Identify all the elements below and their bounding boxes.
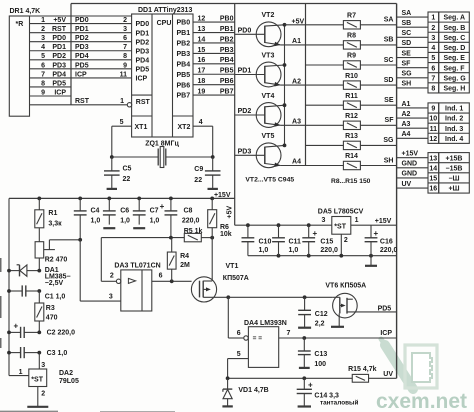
label DR1 4,7K [10, 8, 41, 15]
pin 16 number [429, 186, 437, 193]
net label SC [384, 57, 394, 64]
pin 5 number [431, 55, 435, 62]
svg-text:11: 11 [120, 71, 128, 78]
svg-text:R15 4,7k: R15 4,7k [348, 366, 377, 373]
svg-text:ICP: ICP [380, 330, 392, 337]
svg-text:18: 18 [198, 78, 206, 85]
svg-text:PB3: PB3 [177, 51, 191, 58]
net label +5V vertical [227, 206, 234, 219]
svg-text:16: 16 [429, 186, 437, 193]
mosfet VT6 KP505A [333, 293, 397, 326]
svg-text:Seg. A: Seg. A [444, 15, 466, 22]
wire row R11 left [306, 104, 344, 106]
svg-text:SB: SB [402, 20, 412, 27]
svg-text:Ind. 3: Ind. 3 [445, 126, 463, 133]
resistor R11 [343, 101, 396, 109]
wire VT1 source to DA4 pin6 [228, 297, 244, 338]
pin 12 number [429, 136, 437, 143]
net label SA [384, 17, 394, 24]
svg-text:PB3: PB3 [220, 47, 234, 54]
svg-text:3: 3 [321, 217, 325, 224]
svg-text:C6: C6 [120, 207, 129, 214]
svg-text:14: 14 [198, 36, 206, 43]
polarity + C8 [160, 202, 165, 211]
DD1 port label ICP [136, 76, 148, 83]
svg-text:12: 12 [429, 136, 437, 143]
svg-text:1,0: 1,0 [150, 217, 160, 224]
pin 7 DA4 [287, 330, 291, 337]
polarity + C14 [308, 381, 313, 390]
ground VD1 [222, 405, 232, 407]
svg-text:3,3к: 3,3к [48, 220, 62, 227]
node DA1 right [37, 269, 41, 273]
svg-text:*ST: *ST [334, 224, 346, 231]
DD1 port label PD3 [136, 48, 150, 55]
wire UV line [228, 377, 353, 379]
capacitor C7 [133, 198, 146, 224]
svg-text:C16: C16 [380, 238, 393, 245]
polarity + C16 [374, 229, 379, 238]
svg-text:11: 11 [430, 126, 438, 133]
pin 3 number [431, 35, 435, 42]
pin 8 label Seg. H [444, 86, 466, 93]
regulator DA2 79L05 [9, 353, 47, 407]
sheet top border [71, 3, 397, 5]
pin number 4 [41, 44, 45, 51]
svg-text:R3: R3 [46, 305, 55, 312]
wire row R9 left [306, 64, 344, 66]
node C15 top [307, 223, 311, 227]
svg-text:4: 4 [431, 45, 435, 52]
polarity + C15 [313, 229, 318, 238]
node rail C7 [137, 197, 141, 201]
node DA1 left [7, 269, 11, 273]
svg-text:R2 470: R2 470 [45, 257, 68, 264]
svg-text:DA5 L7805CV: DA5 L7805CV [318, 208, 364, 215]
svg-text:SF: SF [402, 60, 412, 67]
svg-text:R10: R10 [345, 73, 358, 80]
svg-text:PD5: PD5 [75, 62, 89, 69]
node collector VT2 [283, 23, 287, 27]
DD1 pin number 6 [123, 35, 127, 42]
net label PB6 [220, 78, 234, 85]
node gnd DA5 [339, 254, 343, 258]
resistor network DR1 [9, 16, 29, 116]
label DD1 ATTiny2313 [138, 7, 192, 14]
wire UV to pin 16 [397, 187, 428, 189]
svg-text:Ind. 4: Ind. 4 [445, 136, 463, 143]
pin 15 label &#8722;Ш [448, 176, 459, 183]
svg-text:PD2: PD2 [52, 53, 66, 60]
DD1 pin label PD4 [75, 53, 89, 60]
svg-text:7: 7 [41, 71, 45, 78]
wire DA5 pin1 +15V [351, 224, 397, 226]
pin 8 number [431, 86, 435, 93]
wire DR1 pin 5 (PD2) [30, 59, 132, 61]
resistor R7 [343, 21, 396, 29]
svg-text:5: 5 [431, 55, 435, 62]
connector XP1 pins 9-12 (indicators) [428, 103, 469, 143]
svg-text:VT4: VT4 [262, 93, 275, 100]
label C12 2,2 [315, 311, 328, 327]
svg-text:14: 14 [429, 165, 437, 172]
pin 4 label Seg. D [444, 45, 466, 52]
svg-text:SC: SC [402, 30, 412, 37]
svg-text:10k: 10k [220, 231, 232, 238]
label C3 1,0 [47, 350, 68, 357]
node VD1 [226, 376, 230, 380]
svg-text:A2: A2 [402, 111, 411, 118]
svg-text:1: 1 [355, 217, 359, 224]
node C13 [302, 336, 306, 340]
svg-text:SD: SD [384, 77, 394, 84]
resistor R12 [343, 121, 396, 129]
net label +15V [402, 150, 419, 157]
svg-text:−Ш: −Ш [448, 176, 459, 183]
svg-text:A4: A4 [402, 131, 411, 138]
net label SF [385, 117, 395, 124]
pin 2 DA5 [344, 237, 348, 244]
net label A4 [402, 131, 411, 138]
svg-text:+: + [313, 229, 318, 238]
net label SF [402, 60, 412, 67]
ground VT6 [331, 326, 344, 328]
label C1 1,0 [45, 293, 66, 300]
capacitor C13 [298, 338, 311, 367]
wire DR1 pin 3 (PD0) [30, 41, 132, 43]
pin 15 number [429, 176, 437, 183]
ground symbol C16 [365, 256, 377, 266]
svg-text:15: 15 [429, 176, 437, 183]
node B R4/C8 [169, 236, 173, 240]
pin 1 DA2 [19, 369, 23, 376]
label C6 1,0 [120, 207, 130, 224]
capacitor C6 [103, 198, 116, 224]
net label A1 [292, 38, 301, 45]
label R11 [345, 93, 358, 100]
svg-text:SG: SG [383, 137, 394, 144]
wire pin2 branch [101, 238, 116, 282]
net label GND [402, 171, 418, 178]
pin number 17 [198, 68, 206, 75]
net label PD5 [378, 305, 392, 312]
svg-text:A1: A1 [402, 101, 411, 108]
svg-text:R4: R4 [180, 253, 189, 260]
capacitor C4 [74, 198, 87, 239]
label DA3 TL071CN [114, 263, 160, 270]
ground C7 [133, 227, 145, 229]
label R8...R15 150 [331, 178, 371, 185]
node XT2-C9 [211, 155, 215, 159]
svg-text:PB5: PB5 [177, 72, 191, 79]
svg-text:R8: R8 [347, 33, 356, 40]
DD1 pin label PD2 [75, 35, 89, 42]
node collector VT3 [283, 63, 287, 67]
svg-text:1: 1 [431, 15, 435, 22]
pin 1 number [431, 15, 435, 22]
scan edge artifacts [0, 258, 175, 412]
wire row R13 left [306, 144, 344, 146]
pin 14 label &#8722;15B [446, 165, 463, 172]
label DA2 79L05 [59, 370, 79, 385]
svg-text:R7: R7 [347, 13, 356, 20]
wire seg SB to pin 2 [397, 26, 428, 28]
svg-text:SE: SE [402, 50, 412, 57]
wire row R12 left [306, 124, 344, 126]
DD1 port label XT1 [135, 124, 148, 131]
capacitor C5 [104, 157, 120, 188]
svg-text:Seg. H: Seg. H [444, 86, 466, 93]
ground C6 [103, 227, 115, 229]
net label A1 [402, 101, 411, 108]
svg-text:17: 17 [198, 68, 206, 75]
svg-text:ZQ1 8МГц: ZQ1 8МГц [145, 141, 179, 148]
svg-text:SG: SG [402, 71, 413, 78]
svg-text:1: 1 [19, 369, 23, 376]
svg-text:PB6: PB6 [220, 78, 234, 85]
sheet left border [70, 4, 72, 105]
label DA5 L7805CV [318, 208, 364, 215]
wire A2 to pin 10 [397, 117, 428, 119]
svg-text:VD1 4,7В: VD1 4,7В [238, 387, 268, 394]
svg-text:VT2: VT2 [262, 12, 275, 19]
net label PD4 [52, 71, 66, 78]
capacitor C8 [165, 198, 178, 237]
svg-text:Ind. 2: Ind. 2 [445, 116, 463, 123]
wire DR1 pin 4 (PD1) [30, 50, 132, 52]
pin number 15 [198, 47, 206, 54]
watermark cxem.net logo [376, 339, 467, 412]
net label +15V [214, 192, 231, 199]
svg-text:PB4: PB4 [177, 61, 191, 68]
net label +15V [375, 218, 392, 225]
svg-text:PD1: PD1 [52, 44, 66, 51]
net label UV [402, 181, 412, 188]
svg-text:A1: A1 [292, 38, 301, 45]
net label PB2 [220, 36, 234, 43]
svg-text:1,0: 1,0 [120, 217, 130, 224]
DD1 pin number 8 [123, 53, 127, 60]
net label SD [384, 77, 394, 84]
node rail R6 [210, 197, 214, 201]
svg-text:1,0: 1,0 [91, 217, 101, 224]
svg-text:R5 1k: R5 1k [184, 228, 203, 235]
wire R15 to cable [369, 377, 397, 379]
svg-text:PD3: PD3 [238, 149, 252, 156]
node rail C8 [169, 197, 173, 201]
svg-text:A4: A4 [292, 159, 301, 166]
capacitor C1 [9, 285, 39, 296]
node C14 [302, 376, 306, 380]
node C3 left [7, 351, 11, 355]
node gnd C16 [369, 254, 373, 258]
net label SE [402, 50, 412, 57]
node C12 [303, 295, 307, 299]
net label PD2 [52, 53, 66, 60]
svg-text:DA3 TL071CN: DA3 TL071CN [114, 263, 160, 270]
node XT1-C5 [110, 155, 114, 159]
svg-text:PD1: PD1 [136, 30, 150, 37]
label R9 [347, 53, 356, 60]
pin number 8 [41, 80, 45, 87]
svg-text:PD3: PD3 [75, 44, 89, 51]
net label PB7 [220, 89, 234, 96]
label C8 220,0 [182, 207, 200, 224]
wire RST to DD1 pin 1 [30, 104, 128, 106]
svg-text:2: 2 [41, 391, 45, 398]
svg-text:PD0: PD0 [238, 28, 252, 35]
resistor R9 [343, 61, 396, 69]
pin 9 number [431, 106, 435, 113]
svg-text:C2 220,0: C2 220,0 [47, 330, 76, 337]
pin number 2 [41, 26, 45, 33]
net label +5V [292, 19, 305, 26]
wire DR1 pin 8 (PD5) [30, 86, 72, 88]
svg-text:PD0: PD0 [52, 35, 66, 42]
label C10 1,0 [259, 238, 272, 253]
wire node B [101, 237, 184, 239]
label R5 1k [184, 228, 203, 235]
DD1 port label PB3 [177, 51, 191, 58]
svg-text:+: + [374, 229, 379, 238]
wire DR1 pin 6 (PD3) [30, 68, 132, 70]
label R3 470 [46, 305, 58, 322]
net label ICP [380, 330, 392, 337]
DD1 pin label RST [75, 98, 90, 105]
node rail C4 [78, 197, 82, 201]
svg-text:A3: A3 [292, 119, 301, 126]
pin 3 DA2 [41, 362, 45, 369]
capacitor C11 [272, 225, 285, 256]
left supply branch [8, 198, 10, 375]
svg-text:+5V: +5V [292, 19, 305, 26]
node C3 right [37, 351, 41, 355]
svg-text:PD2: PD2 [136, 39, 150, 46]
label C2 220,0 [47, 330, 76, 337]
svg-text:PB2: PB2 [220, 36, 234, 43]
mosfet VT1 KP507A [191, 238, 228, 302]
svg-text:9: 9 [41, 89, 45, 96]
node gnd C11 [277, 254, 281, 258]
pin 11 label Ind. 3 [445, 126, 463, 133]
node C1 right [37, 289, 41, 293]
svg-text:2: 2 [431, 25, 435, 32]
net label PB5 [220, 68, 234, 75]
label VT5 [262, 133, 275, 140]
svg-text:ICP: ICP [136, 76, 148, 83]
DD1 port label PB1 [177, 30, 191, 37]
svg-text:2: 2 [123, 17, 127, 24]
svg-text:R12: R12 [345, 113, 358, 120]
svg-text:XT2: XT2 [178, 124, 191, 131]
label VT6 KP505A [325, 283, 366, 290]
svg-text:Seg. C: Seg. C [444, 35, 466, 42]
svg-text:16: 16 [198, 57, 206, 64]
label C14 3,3 tantalum [314, 392, 358, 406]
svg-text:SA: SA [402, 10, 412, 17]
label DA4 LM393N [244, 320, 287, 327]
comparator DA4 LM393N [244, 327, 279, 368]
pin 2 DA3 [110, 273, 114, 280]
svg-text:+: + [308, 381, 313, 390]
pin number 13 [198, 26, 206, 33]
net label SE [384, 97, 394, 104]
svg-text:8: 8 [41, 80, 45, 87]
svg-text:PD2: PD2 [238, 108, 252, 115]
svg-text:C4: C4 [91, 207, 100, 214]
svg-text:PB4: PB4 [220, 57, 234, 64]
net label PD1 [52, 44, 66, 51]
svg-text:= =: = = [253, 335, 263, 342]
wire DD1 pin 17 (PB5) [193, 73, 235, 75]
pin number 6 [41, 62, 45, 69]
pin 6 number [431, 65, 435, 72]
svg-text:CPU: CPU [157, 20, 172, 27]
label C15 220,0 [320, 238, 338, 253]
pin 1 label Seg. A [444, 15, 466, 22]
wire A3 to pin 11 [397, 127, 428, 129]
net label SH [402, 81, 412, 88]
svg-text:2: 2 [344, 237, 348, 244]
RST inversion circle [127, 103, 131, 107]
node rail C6 [107, 197, 111, 201]
wire DR1 pin 1 (+5V) [30, 23, 132, 25]
wire source to VT6 gate [228, 296, 332, 298]
svg-text:DA4 LM393N: DA4 LM393N [244, 320, 287, 327]
regulator DA5 L7805CV [332, 217, 351, 235]
pin 13 label +15B [446, 155, 463, 162]
label C5 22 [123, 165, 132, 183]
net label SA [402, 10, 412, 17]
ground C5 [107, 188, 117, 190]
svg-text:XT1: XT1 [135, 124, 148, 131]
svg-text:*ST: *ST [31, 376, 43, 383]
svg-text:PD4: PD4 [75, 53, 89, 60]
wire row R7 left [306, 24, 344, 26]
cable harness 1 (PB/PD bus) [234, 4, 236, 226]
svg-text:SH: SH [384, 157, 394, 164]
net label PB0 [220, 16, 234, 23]
svg-text:SF: SF [385, 117, 395, 124]
wire row R10 left [306, 84, 344, 86]
wire XT1 pin 5 [112, 126, 132, 157]
svg-text:+5V: +5V [227, 206, 234, 219]
net label PD0 [238, 28, 252, 35]
svg-text:SD: SD [402, 40, 412, 47]
net label PB3 [220, 47, 234, 54]
DD1 port label PB5 [177, 72, 191, 79]
+5V collector bus [284, 25, 286, 146]
svg-text:A2: A2 [292, 78, 301, 85]
resistor R5 [184, 233, 201, 241]
svg-text:C7: C7 [150, 207, 159, 214]
svg-text:PB6: PB6 [177, 82, 191, 89]
svg-text:SA: SA [384, 17, 394, 24]
DD1 port label PD2 [136, 39, 150, 46]
resistor R15 [352, 374, 368, 382]
svg-text:220,0: 220,0 [320, 247, 338, 254]
node pin6 R4 [170, 279, 174, 283]
wire DA5 pin2 [340, 234, 342, 256]
svg-text:C10: C10 [259, 238, 272, 245]
svg-text:3: 3 [41, 362, 45, 369]
net label A2 [402, 111, 411, 118]
capacitor C10 [242, 225, 255, 256]
label R15 4,7k [348, 366, 377, 373]
svg-text:19: 19 [198, 89, 206, 96]
net label SD [402, 40, 412, 47]
label VT2...VT5 C945 [245, 177, 294, 184]
